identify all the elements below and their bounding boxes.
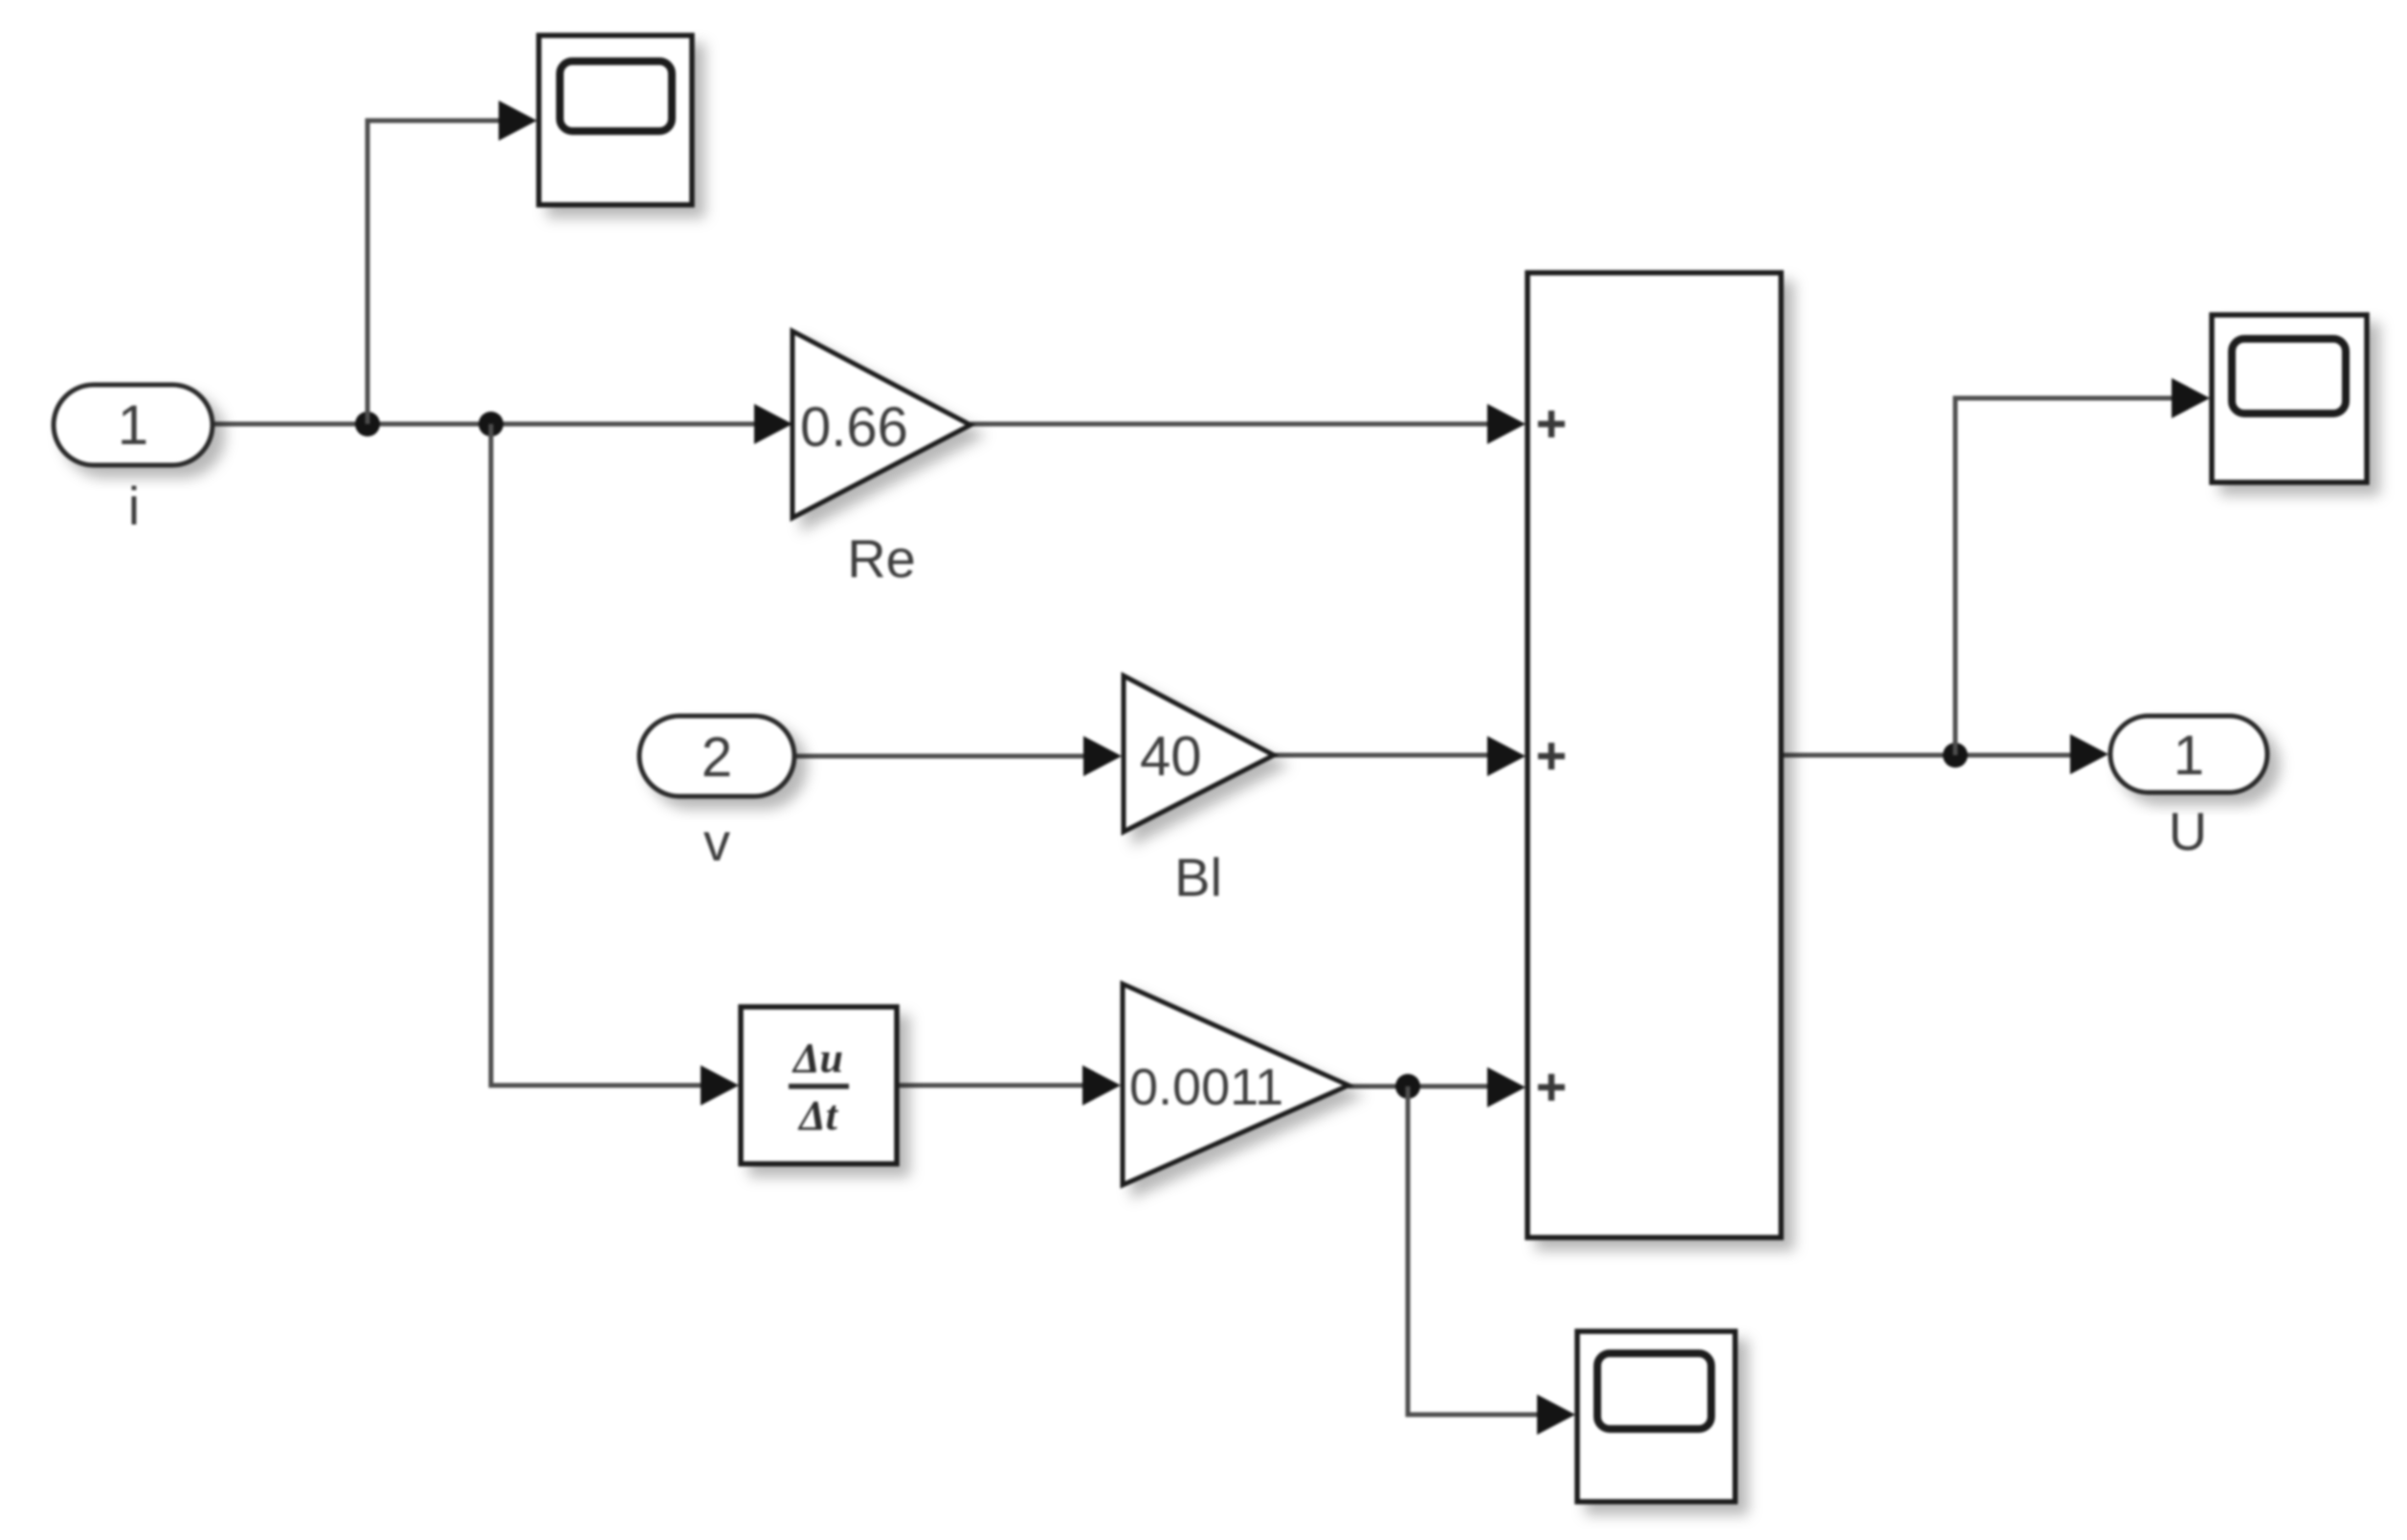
scope Scope1 (top left)	[539, 35, 692, 205]
sum plus pin 3	[1538, 1074, 1565, 1101]
wire: derivative block to gain 0.0011	[897, 1065, 1121, 1105]
svg-text:1: 1	[2173, 725, 2204, 787]
wire: gain 0.0011 to sum input 3	[1348, 1067, 1526, 1107]
svg-text:0.0011: 0.0011	[1129, 1059, 1283, 1116]
gain K3 (0.0011)	[1123, 984, 1348, 1185]
svg-text:0.66: 0.66	[800, 396, 908, 458]
svg-text:v: v	[703, 812, 730, 872]
scope Scope3 (bottom)	[1577, 1331, 1735, 1502]
svg-text:1: 1	[118, 394, 148, 457]
node C (branch to Scope3)	[1395, 1074, 1420, 1099]
svg-text:2: 2	[702, 726, 732, 789]
sum plus pin 2	[1538, 743, 1565, 770]
output port 1 (U)	[2110, 716, 2267, 792]
scope Scope2 (top right)	[2212, 315, 2367, 482]
sum block Add	[1527, 273, 1781, 1238]
wire: node C down to Scope3	[1408, 1086, 1575, 1435]
derivative block Δu/Δt	[741, 1007, 897, 1164]
svg-text:Δt: Δt	[797, 1092, 839, 1139]
wire: node D up to Scope2	[1955, 378, 2210, 755]
gain Re (0.66)	[792, 331, 970, 518]
node A (branch to Scope1)	[355, 412, 380, 436]
wire: node A up to Scope1	[368, 100, 537, 424]
wire: gain Re to sum input 1	[970, 404, 1526, 444]
sum plus pin 1	[1538, 411, 1565, 437]
node D (branch to Scope2)	[1943, 743, 1968, 768]
wire: node B down to derivative block	[491, 424, 739, 1105]
input port 1 (i)	[54, 385, 212, 465]
svg-text:i: i	[128, 476, 140, 536]
svg-text:Re: Re	[847, 528, 916, 589]
input port 2 (v)	[639, 716, 794, 796]
wire: sum output to outport U	[1781, 734, 2108, 774]
wire: gain Bl to sum input 2	[1274, 736, 1526, 776]
wire: port2 to gain Bl	[794, 736, 1122, 776]
svg-text:Δu: Δu	[791, 1035, 843, 1082]
node B (branch to derivative)	[479, 412, 503, 436]
svg-text:40: 40	[1140, 725, 1202, 788]
svg-text:Bl: Bl	[1174, 847, 1222, 907]
gain Bl (40)	[1124, 676, 1274, 832]
wire: port1 to gain Re	[212, 404, 792, 444]
svg-text:U: U	[2169, 801, 2207, 861]
